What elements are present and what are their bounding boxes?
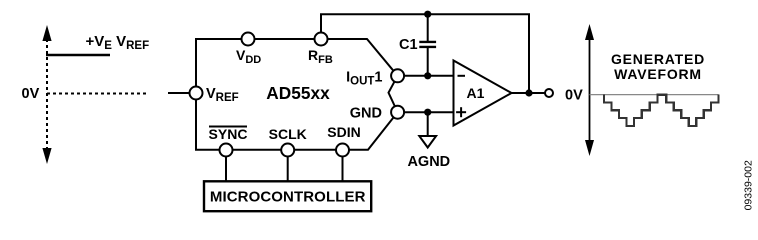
wire op-amp output <box>512 92 546 94</box>
wire SDIN to microcontroller <box>342 156 344 181</box>
pin RFB circle <box>315 33 328 46</box>
svg-text:AD55xx: AD55xx <box>266 83 330 103</box>
pin VREF circle <box>190 87 203 100</box>
wire SYNC to microcontroller <box>225 156 227 181</box>
wire VE level line <box>46 54 110 57</box>
capacitor C1 <box>419 14 436 76</box>
op-amp A1 <box>454 61 512 126</box>
wire IOUT1 to op-amp inverting input <box>404 75 454 77</box>
pin IOUT1 circle <box>391 69 404 82</box>
junction AGND <box>424 109 431 116</box>
pin GND circle <box>391 106 404 119</box>
svg-text:SYNC: SYNC <box>209 126 248 142</box>
svg-text:C1: C1 <box>399 37 418 53</box>
svg-text:WAVEFORM: WAVEFORM <box>614 66 702 82</box>
node axis-right <box>585 24 594 156</box>
svg-text:0V: 0V <box>565 88 583 104</box>
block MICROCONTROLLER <box>204 181 371 211</box>
wire to VREF pin <box>168 92 190 94</box>
svg-text:0V: 0V <box>22 86 40 102</box>
pin SYNC circle <box>220 144 233 157</box>
node output terminal <box>545 89 553 97</box>
pin VDD circle <box>242 33 255 46</box>
svg-text:AGND: AGND <box>407 154 450 170</box>
junction top C1 <box>424 11 431 18</box>
wire GND to op-amp noninverting input <box>404 111 454 113</box>
wire feedback RFB to output <box>321 14 529 93</box>
pin SDIN circle <box>336 144 349 157</box>
node generated waveform staircase <box>604 95 719 126</box>
junction output feedback <box>525 89 532 96</box>
junction C1 bottom <box>424 72 431 79</box>
svg-text:GENERATED: GENERATED <box>611 51 705 67</box>
pin SYNC overline <box>209 126 247 128</box>
wire 0V reference line right <box>590 94 719 96</box>
node GENERATED WAVEFORM label <box>611 51 705 82</box>
svg-text:GND: GND <box>350 106 382 122</box>
node axis-left <box>42 25 51 164</box>
svg-text:MICROCONTROLLER: MICROCONTROLLER <box>210 189 366 206</box>
pin SCLK circle <box>281 144 294 157</box>
wire 0V dotted <box>47 93 147 95</box>
svg-text:09339-002: 09339-002 <box>743 160 755 210</box>
IC U1 AD55xx body <box>196 39 398 150</box>
wire SCLK to microcontroller <box>287 156 289 181</box>
svg-text:A1: A1 <box>467 85 485 101</box>
svg-text:SDIN: SDIN <box>327 124 360 140</box>
ground AGND symbol <box>419 136 436 148</box>
svg-text:SCLK: SCLK <box>269 126 307 142</box>
wire to AGND <box>427 112 429 136</box>
